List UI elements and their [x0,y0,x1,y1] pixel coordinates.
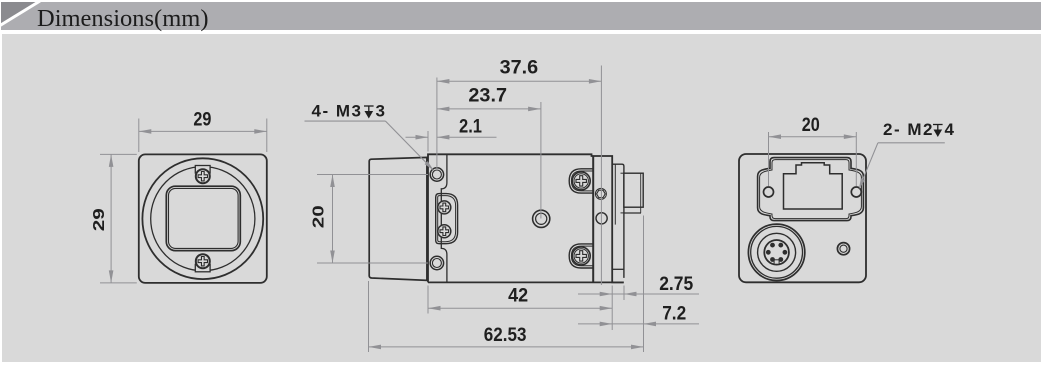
side view dim 2.75: dimension line with outside arrows [578,293,699,295]
svg-text:42: 42 [508,286,528,307]
side view dim 20: extension lines [317,174,428,176]
front view: bottom screw tab [195,264,210,272]
svg-text:23.7: 23.7 [468,85,507,106]
svg-text:37.6: 37.6 [500,58,539,79]
side view: front plate inner edge [441,154,447,282]
svg-text:2.1: 2.1 [459,116,482,137]
side view dim 62.53: extension lines [368,281,370,352]
side view: center tripod hole [533,210,550,227]
side view dim 7.2: dimension line with outside arrows [578,323,699,325]
back view: RJ45 bezel outer [758,158,864,221]
header dark corner triangle [1,2,46,30]
back view dim 20: extension lines [768,132,770,186]
back view: power connector rings [748,224,804,280]
svg-text:7.2: 7.2 [662,304,686,325]
svg-text:4: 4 [945,120,955,139]
front view: sensor window outer [166,186,240,250]
side view: rear small hole [596,213,607,224]
front view: top screw [196,169,210,183]
side view dim 42: dimension line [428,307,612,309]
svg-text:4- M3: 4- M3 [312,102,363,121]
back view: M2 screw hole right [851,187,861,197]
front view: inner lens mount circle [151,167,255,271]
side view: oval boss screw top [438,201,451,214]
back view: RJ45 opening [784,163,843,209]
back view: RJ45 bezel inner [760,160,862,219]
side view dim 2.1: extension line left [427,131,429,152]
side view: oval boss outer [436,194,458,244]
svg-text:20: 20 [802,115,820,136]
front view dim 29 left: dimension line [110,154,112,283]
front view: camera body square 29x29 [139,154,267,283]
side view: rear screw boss bottom [569,244,593,268]
side view: oval boss inner [438,196,456,242]
depth symbol [364,106,374,117]
side view dim 2.75: extension line right [623,286,625,301]
side view dim 37.6: dimension line [437,80,602,82]
front view dim 29 top: dimension line [139,130,267,132]
side view: rear connector block [624,173,643,207]
back view: M2 screw hole left [764,187,774,197]
svg-text:62.53: 62.53 [484,325,527,346]
side view: rear plate inner double line [614,164,616,224]
back view label 2-M2 depth 4: leader [878,142,945,144]
header title [37,5,209,33]
side view label 4-M3 depth 3: leader line [305,120,386,122]
depth symbol [933,125,943,136]
svg-text:2- M2: 2- M2 [883,120,934,139]
side view: rear screw boss top [569,169,593,193]
back view: body square [739,154,866,282]
side view: oval boss screw bottom [438,225,451,238]
side view dim 37.6: extension line right [600,66,602,286]
front view: top screw tab [195,166,210,174]
front view: outer lens mount circle [142,158,263,279]
svg-text:29: 29 [91,208,108,231]
side view: rear 2.75 plate [612,164,624,278]
front view: sensor window inner [169,188,239,248]
side view: hex nut [595,188,606,199]
side view dim 42: extension lines [427,286,429,314]
svg-text:29: 29 [193,110,211,131]
side view: main body outline [428,154,624,282]
side view: M3 screw hole bottom (annulus) [430,256,443,269]
side view dim 23.7: extension line right [540,102,542,219]
back view: connector key notch [774,260,779,264]
svg-text:20: 20 [311,205,328,228]
front view dim 29 top: extension lines [138,119,140,153]
front view dim 29 left: extension lines [100,153,137,155]
back view: LED indicator [837,243,849,255]
svg-text:3: 3 [376,102,385,121]
back view: connector pins [783,250,788,255]
header band [1,2,1041,30]
side view dim 20: dimension line [332,175,334,264]
front view: bottom screw [196,254,210,268]
side view dim 62.53: dimension line [369,346,644,348]
side view dim 2.1: dimension line with outside arrows [406,136,429,138]
svg-text:2.75: 2.75 [659,274,693,295]
side view dim 23.7: dimension line [437,108,541,110]
side view: rear plate separation line [592,156,594,282]
back view dim 20: dimension line [769,136,857,138]
side view dim 37.6: extension line left [436,78,438,171]
side view: lens barrel [369,157,427,280]
side view: M3 screw hole top (annulus) [430,168,443,181]
